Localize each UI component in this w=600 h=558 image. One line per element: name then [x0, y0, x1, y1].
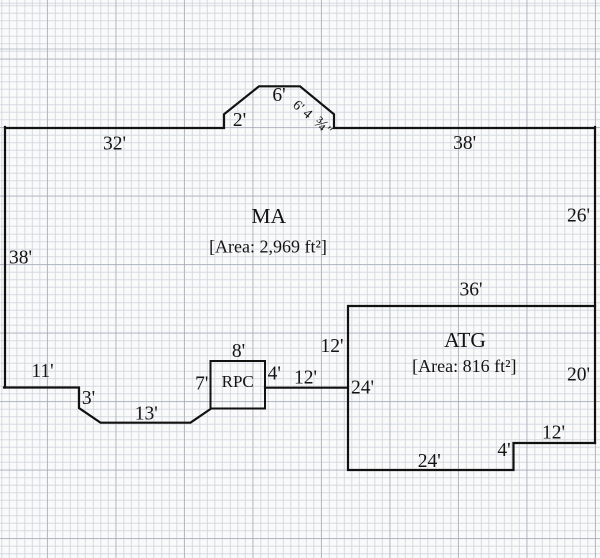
- svg-text:32': 32': [103, 134, 126, 155]
- svg-text:11': 11': [31, 361, 53, 382]
- svg-text:4': 4': [497, 440, 510, 461]
- svg-text:MA: MA: [251, 204, 286, 228]
- svg-text:[Area: 2,969 ft²]: [Area: 2,969 ft²]: [209, 237, 327, 257]
- svg-text:26': 26': [567, 206, 590, 227]
- svg-text:38': 38': [9, 248, 32, 269]
- svg-text:2': 2': [233, 110, 246, 131]
- svg-text:8': 8': [232, 341, 245, 362]
- svg-text:6' 4 ¾″: 6' 4 ¾″: [289, 95, 337, 140]
- svg-text:12': 12': [542, 423, 565, 444]
- svg-text:ATG: ATG: [444, 328, 486, 352]
- svg-text:20': 20': [567, 365, 590, 386]
- svg-text:12': 12': [320, 336, 343, 357]
- svg-text:12': 12': [294, 368, 317, 389]
- svg-text:36': 36': [459, 280, 482, 301]
- svg-text:13': 13': [135, 404, 158, 425]
- svg-text:3': 3': [82, 388, 95, 409]
- svg-text:7': 7': [195, 374, 208, 395]
- svg-text:38': 38': [453, 133, 476, 154]
- svg-text:RPC: RPC: [222, 372, 254, 391]
- svg-text:4': 4': [268, 364, 281, 385]
- svg-text:24': 24': [418, 451, 441, 472]
- svg-text:[Area: 816 ft²]: [Area: 816 ft²]: [412, 356, 516, 376]
- svg-text:24': 24': [351, 378, 374, 399]
- svg-text:6': 6': [272, 85, 285, 106]
